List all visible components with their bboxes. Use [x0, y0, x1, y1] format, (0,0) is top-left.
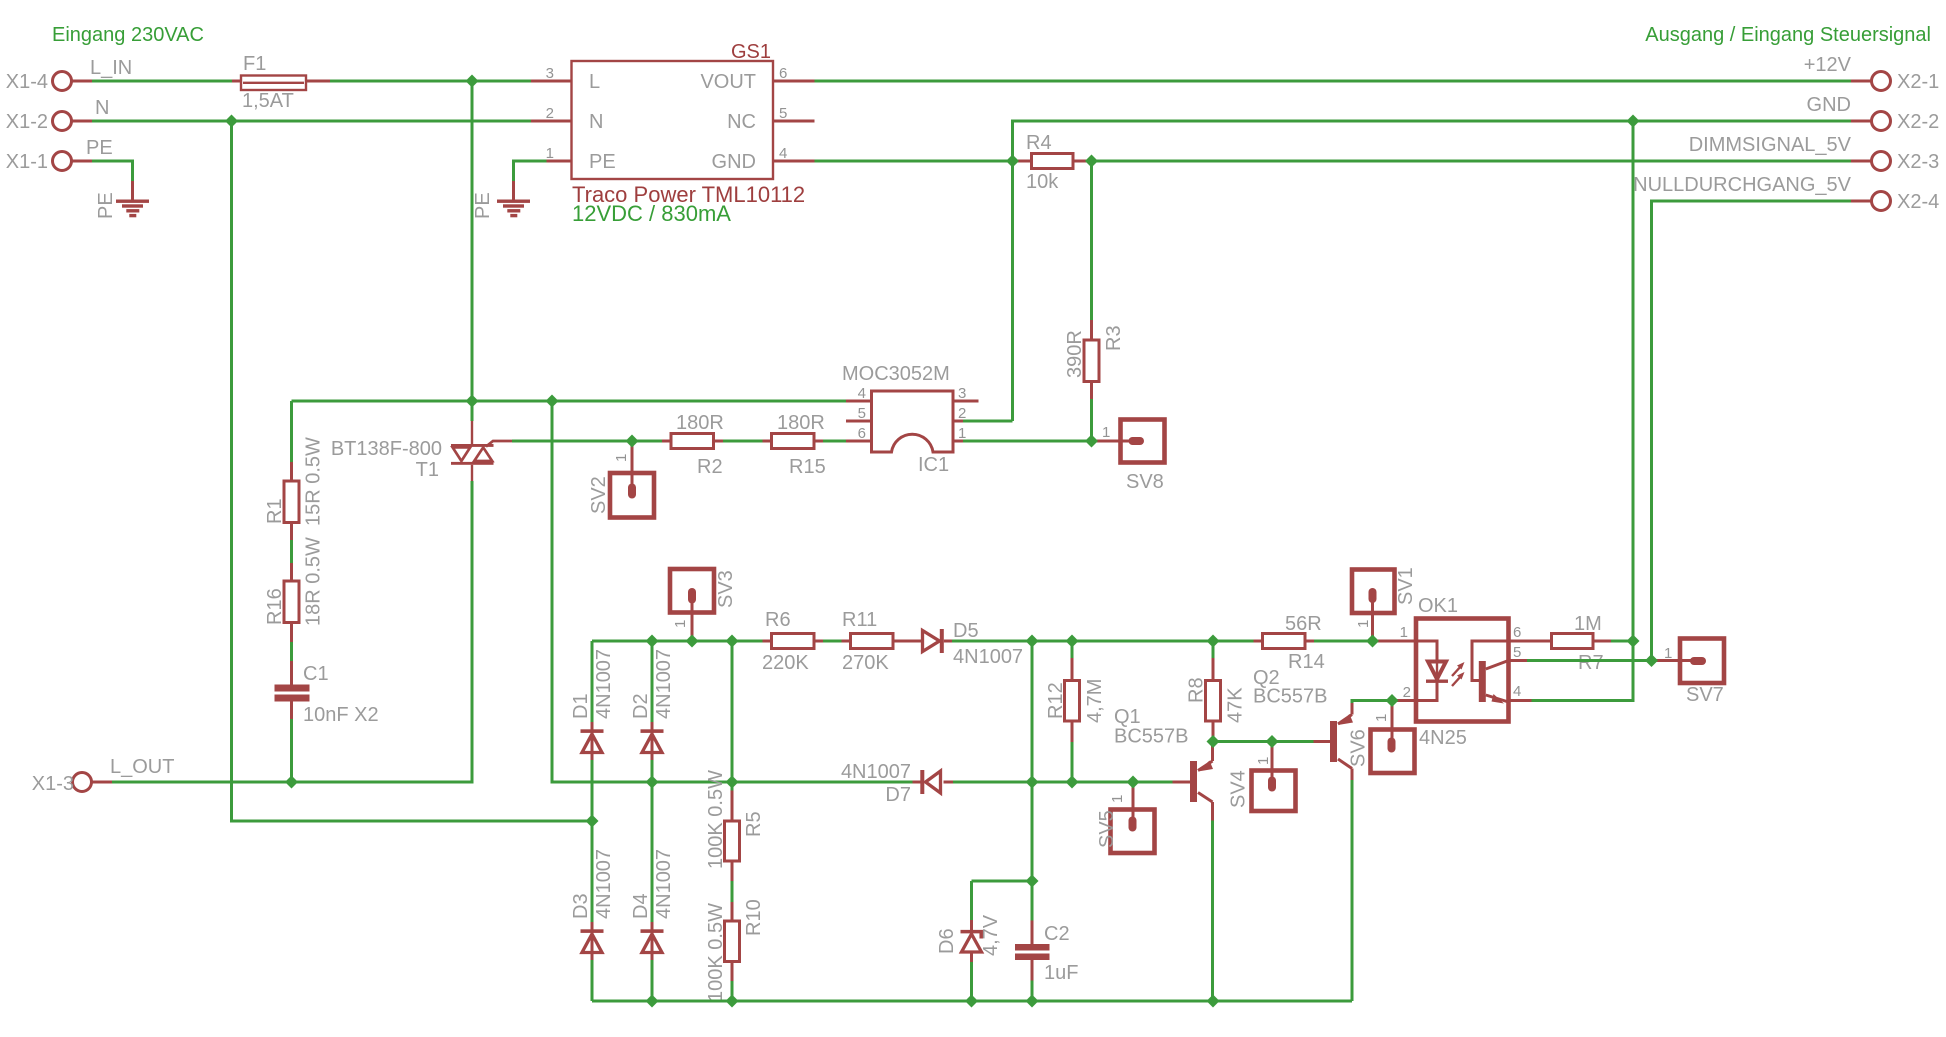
wire C1 to L_OUT	[290, 719, 293, 782]
svg-text:SV4: SV4	[1228, 770, 1250, 808]
svg-text:2: 2	[1403, 684, 1411, 701]
junction R4 right DIMMSIGNAL	[1085, 155, 1098, 168]
GS1 pin 3 L	[531, 65, 600, 93]
junction R8 top	[1207, 635, 1220, 648]
svg-text:R15: R15	[789, 456, 826, 478]
svg-text:4N1007: 4N1007	[841, 761, 911, 783]
wire GND vertical x1633	[1632, 121, 1635, 641]
fuse F1	[232, 76, 330, 91]
wire R16-C1	[290, 642, 293, 661]
svg-text:X2-1: X2-1	[1897, 71, 1939, 93]
junction R7 GND	[1627, 635, 1640, 648]
wire PE to ground	[92, 161, 133, 181]
header SV7	[1652, 639, 1725, 684]
svg-text:1uF: 1uF	[1044, 962, 1078, 984]
svg-text:1: 1	[1664, 645, 1672, 662]
header SV3	[670, 569, 714, 641]
connector pad X1-1	[6, 151, 92, 173]
GS1 pin 2 N	[531, 105, 603, 133]
svg-text:3: 3	[546, 65, 554, 82]
svg-text:56R: 56R	[1285, 613, 1322, 635]
wire base row Q2	[1213, 740, 1314, 743]
svg-text:3: 3	[958, 385, 966, 402]
svg-text:18R 0.5W: 18R 0.5W	[303, 537, 325, 626]
svg-text:N: N	[589, 111, 603, 133]
svg-text:SV8: SV8	[1126, 471, 1164, 493]
wire R15 to IC1 pin6	[823, 440, 846, 443]
connector pad X1-4	[6, 71, 92, 93]
svg-text:X2-2: X2-2	[1897, 111, 1939, 133]
resistor R6	[763, 634, 824, 649]
diode D5	[923, 629, 953, 653]
junction SV7 NULLDURCHGANG	[1645, 654, 1658, 667]
ground PE2	[497, 181, 530, 217]
svg-text:D1: D1	[570, 693, 592, 719]
resistor R5	[725, 791, 740, 882]
svg-text:R10: R10	[743, 899, 765, 936]
svg-text:4N1007: 4N1007	[953, 646, 1023, 668]
junction SV4	[1266, 735, 1279, 748]
svg-text:C2: C2	[1044, 923, 1070, 945]
junction D4 rail	[646, 995, 659, 1008]
junction D2 D4	[646, 776, 659, 789]
connector pad X2-4	[1851, 191, 1939, 213]
svg-text:180R: 180R	[676, 412, 724, 434]
capacitor C1	[275, 661, 310, 719]
svg-text:X1-4: X1-4	[6, 71, 48, 93]
capacitor C2	[1015, 881, 1050, 1001]
svg-text:270K: 270K	[842, 652, 889, 674]
junction R3 IC1 SV8	[1085, 435, 1098, 448]
OK1 pin 6	[1509, 624, 1552, 641]
wire L_OUT	[112, 481, 472, 782]
svg-text:X2-3: X2-3	[1897, 151, 1939, 173]
wire R14 to OK1 pin1	[1314, 640, 1376, 643]
ground PE1	[116, 181, 149, 217]
svg-text:R6: R6	[765, 609, 791, 631]
svg-text:D5: D5	[953, 620, 979, 642]
svg-text:R2: R2	[697, 456, 723, 478]
junction lower branch column	[546, 395, 559, 408]
wire GND row	[815, 121, 1852, 161]
junction R8 bottom Q1 emitter	[1207, 735, 1220, 748]
wire Q2 collector down	[1351, 780, 1354, 1001]
wire gate row	[512, 440, 662, 443]
svg-text:4N1007: 4N1007	[593, 849, 615, 919]
svg-text:1: 1	[1102, 424, 1110, 441]
junction C2 D6	[1026, 875, 1039, 888]
svg-text:SV2: SV2	[588, 476, 610, 514]
svg-text:1M: 1M	[1574, 613, 1602, 635]
svg-text:5: 5	[1513, 644, 1521, 661]
junction GND R4 left	[1006, 155, 1019, 168]
wire DIMMSIGNAL_5V	[1092, 160, 1852, 163]
IC1 pin 1	[953, 425, 966, 442]
wire GS1 PE to ground	[514, 161, 547, 181]
resistor R15	[763, 434, 824, 449]
OK1 pin 1	[1376, 624, 1416, 641]
svg-text:OK1: OK1	[1418, 595, 1458, 617]
svg-text:4: 4	[858, 385, 866, 402]
transistor Q2	[1314, 702, 1354, 780]
svg-text:SV3: SV3	[715, 570, 737, 608]
optotriac IC1 MOC3052M box	[872, 391, 954, 452]
wire OK1 pin4 to GND column	[1532, 641, 1634, 701]
header SV1	[1352, 570, 1395, 639]
connector pad X1-3	[32, 773, 112, 796]
resistor R1	[284, 462, 299, 540]
wire IC1 pin2 up	[963, 420, 1013, 423]
OK1 pin 5	[1509, 644, 1528, 661]
wire row y401	[292, 400, 847, 403]
svg-text:SV5: SV5	[1096, 810, 1118, 848]
svg-text:4: 4	[779, 145, 787, 162]
resistor R7	[1552, 634, 1612, 649]
junction SV2 gate	[626, 435, 639, 448]
wire branch vertical x552	[552, 401, 913, 782]
junction R12 top	[1066, 635, 1079, 648]
junction x1032 row	[1026, 776, 1039, 789]
junction D6 rail	[965, 995, 978, 1008]
wire IC1 pin1 row	[963, 440, 1109, 443]
connector pad X2-1	[1851, 71, 1939, 93]
svg-text:R4: R4	[1026, 132, 1052, 154]
svg-text:+12V: +12V	[1804, 54, 1852, 76]
zener diode D6	[961, 881, 982, 1001]
wire N branch vertical x231.5	[232, 121, 593, 821]
junction triac column	[466, 395, 479, 408]
diode D4	[641, 782, 664, 1001]
svg-text:220K: 220K	[762, 652, 809, 674]
wire column x1032	[1031, 641, 1034, 881]
svg-text:X1-3: X1-3	[32, 773, 74, 795]
svg-text:390R: 390R	[1064, 330, 1086, 378]
svg-text:R14: R14	[1288, 651, 1325, 673]
svg-text:R3: R3	[1103, 325, 1125, 351]
diode D7	[913, 770, 954, 794]
junction R5 column top	[726, 635, 739, 648]
svg-text:SV7: SV7	[1686, 684, 1724, 706]
GS1 pin 1 PE	[546, 145, 616, 173]
svg-text:1: 1	[958, 425, 966, 442]
wire R1-R16	[290, 540, 293, 563]
svg-text:N: N	[95, 97, 109, 119]
OK1 pin 4	[1509, 683, 1532, 701]
svg-text:D6: D6	[936, 928, 958, 954]
header SV8	[1092, 420, 1165, 463]
svg-text:DIMMSIGNAL_5V: DIMMSIGNAL_5V	[1689, 134, 1852, 156]
diode D3	[581, 821, 604, 1001]
svg-text:Ausgang / Eingang Steuersignal: Ausgang / Eingang Steuersignal	[1645, 24, 1931, 46]
junction SV3	[686, 635, 699, 648]
svg-text:BT138F-800: BT138F-800	[331, 438, 442, 460]
svg-text:4N1007: 4N1007	[653, 649, 675, 719]
svg-text:1: 1	[1255, 757, 1272, 765]
svg-text:1: 1	[1400, 624, 1408, 641]
header SV2	[610, 441, 654, 518]
svg-text:PE: PE	[472, 192, 494, 219]
wire Q1 collector down	[1211, 821, 1214, 1002]
junction SV5 Q1 base	[1127, 776, 1140, 789]
GS1 pin 5 NC	[727, 105, 814, 133]
resistor R3	[1084, 161, 1099, 441]
junction L_IN branch	[466, 75, 479, 88]
svg-text:4N25: 4N25	[1419, 727, 1467, 749]
wire row y782 segment is in x552 path; resistor R12	[1065, 641, 1080, 782]
svg-text:PE: PE	[589, 151, 616, 173]
svg-text:100K 0.5W: 100K 0.5W	[705, 903, 727, 1002]
junction GND column top	[1627, 115, 1640, 128]
GS1 pin 4 GND	[712, 145, 815, 173]
svg-text:Eingang 230VAC: Eingang 230VAC	[52, 24, 204, 46]
svg-text:L_OUT: L_OUT	[110, 756, 174, 778]
GS1 pin 6 VOUT	[700, 65, 814, 93]
wire C2 column head	[972, 880, 1033, 883]
svg-text:C1: C1	[303, 663, 329, 685]
svg-text:5: 5	[779, 105, 787, 122]
svg-text:BC557B: BC557B	[1253, 686, 1328, 708]
resistor R11	[842, 634, 923, 649]
svg-text:4: 4	[1513, 683, 1521, 700]
resistor R4	[1013, 154, 1092, 169]
svg-text:D2: D2	[630, 693, 652, 719]
IC1 pin 4	[846, 385, 872, 402]
diode D2	[641, 641, 664, 782]
wire Q2 emitter to OK1 pin2	[1352, 701, 1392, 704]
wire +12V	[815, 80, 1852, 83]
svg-text:4N1007: 4N1007	[593, 649, 615, 719]
svg-text:47K: 47K	[1225, 687, 1247, 723]
resistor R16	[284, 563, 299, 642]
svg-text:10nF X2: 10nF X2	[303, 704, 379, 726]
svg-text:D4: D4	[630, 893, 652, 919]
svg-text:6: 6	[1513, 624, 1521, 641]
header SV6	[1371, 701, 1415, 774]
svg-text:5: 5	[858, 405, 866, 422]
svg-text:F1: F1	[243, 53, 266, 75]
junction C2 rail	[1026, 995, 1039, 1008]
svg-text:15R 0.5W: 15R 0.5W	[303, 437, 325, 526]
svg-text:1,5AT: 1,5AT	[242, 90, 294, 112]
svg-text:PE: PE	[86, 137, 113, 159]
svg-text:L_IN: L_IN	[90, 57, 132, 79]
wire GND/IC1-pin2 vertical x1012.5	[1011, 161, 1014, 421]
resistor R14	[1254, 634, 1315, 649]
wire R10 to rail	[731, 981, 734, 1001]
svg-text:BC557B: BC557B	[1114, 726, 1189, 748]
header SV4	[1252, 742, 1296, 812]
junction R5 top row	[726, 776, 739, 789]
svg-text:4N1007: 4N1007	[653, 849, 675, 919]
wire column x732	[731, 641, 734, 791]
svg-text:VOUT: VOUT	[700, 71, 756, 93]
svg-text:GS1: GS1	[731, 41, 771, 63]
wire row y641	[592, 640, 763, 643]
wire R6-R11	[823, 640, 842, 643]
wire R2-R15	[723, 440, 763, 443]
optocoupler OK1 box	[1416, 619, 1509, 722]
header SV5	[1111, 782, 1155, 853]
svg-text:1: 1	[1355, 620, 1372, 628]
wire NULLDURCHGANG_5V	[1652, 201, 1852, 661]
wire L_IN branch vertical x472	[471, 81, 474, 401]
svg-text:T1: T1	[416, 459, 439, 481]
svg-text:X1-2: X1-2	[6, 111, 48, 133]
junction R12 bottom	[1066, 776, 1079, 789]
svg-text:D3: D3	[570, 893, 592, 919]
svg-text:GND: GND	[712, 151, 756, 173]
wire L_IN right to GS1 pin3	[330, 80, 531, 83]
svg-text:R16: R16	[264, 588, 286, 625]
triac T1	[451, 401, 512, 481]
svg-text:12VDC / 830mA: 12VDC / 830mA	[572, 201, 731, 226]
power module GS1 box	[572, 61, 774, 179]
svg-text:NC: NC	[727, 111, 756, 133]
svg-text:6: 6	[858, 425, 866, 442]
svg-text:NULLDURCHGANG_5V: NULLDURCHGANG_5V	[1633, 174, 1851, 196]
wire D5 to R14	[952, 640, 1254, 643]
svg-text:1: 1	[1109, 795, 1126, 803]
svg-text:IC1: IC1	[918, 454, 949, 476]
junction D5 column	[1026, 635, 1039, 648]
resistor R10	[725, 902, 740, 981]
wire N	[92, 120, 531, 123]
svg-text:2: 2	[958, 405, 966, 422]
connector pad X2-2	[1851, 111, 1939, 133]
junction C1 L_OUT	[285, 776, 298, 789]
svg-text:100K 0.5W: 100K 0.5W	[705, 770, 727, 869]
junction R10 rail	[726, 995, 739, 1008]
svg-text:R1: R1	[264, 498, 286, 524]
wire R1 chain top	[290, 401, 293, 462]
IC1 pin 3	[953, 385, 979, 402]
IC1 pin 5	[846, 405, 872, 422]
svg-text:1: 1	[1373, 714, 1390, 722]
svg-text:1: 1	[546, 145, 554, 162]
svg-text:D7: D7	[885, 784, 911, 806]
connector pad X2-3	[1851, 151, 1939, 173]
IC1 pin 2	[953, 405, 966, 422]
svg-text:4,7V: 4,7V	[980, 914, 1002, 956]
transistor Q1	[1173, 742, 1214, 821]
junction N branch	[225, 115, 238, 128]
OK1 pin 2	[1392, 684, 1416, 701]
svg-text:GND: GND	[1807, 94, 1851, 116]
svg-text:X1-1: X1-1	[6, 151, 48, 173]
connector pad X1-2	[6, 111, 92, 133]
wire R7 to GND column	[1611, 640, 1633, 643]
junction D1 D3 N-row	[586, 815, 599, 828]
wire bottom rail	[592, 1000, 1352, 1003]
wire D7 row right	[953, 781, 1173, 784]
svg-text:6: 6	[779, 65, 787, 82]
svg-text:SV6: SV6	[1348, 729, 1370, 767]
svg-text:4,7M: 4,7M	[1084, 679, 1106, 723]
wire L_IN left	[92, 80, 232, 83]
svg-text:2: 2	[546, 105, 554, 122]
svg-text:X2-4: X2-4	[1897, 191, 1939, 213]
svg-text:180R: 180R	[777, 412, 825, 434]
svg-text:R12: R12	[1045, 682, 1067, 719]
wire OK1 pin5 to SV7	[1527, 659, 1652, 662]
wire R5-R10	[731, 881, 734, 902]
junction D2 top	[646, 635, 659, 648]
svg-text:R5: R5	[743, 811, 765, 837]
svg-text:MOC3052M: MOC3052M	[842, 363, 950, 385]
svg-text:SV1: SV1	[1395, 567, 1417, 605]
IC1 pin 6	[846, 425, 872, 442]
junction OK1 pin2 SV6	[1386, 694, 1399, 707]
svg-text:R8: R8	[1186, 677, 1208, 703]
junction SV1 OK1 pin1	[1366, 635, 1379, 648]
OK1 light arrows	[1452, 662, 1465, 686]
resistor R8	[1206, 641, 1221, 742]
svg-text:1: 1	[613, 454, 630, 462]
OK1 phototransistor	[1472, 641, 1509, 704]
OK1 internal LED	[1416, 641, 1448, 701]
svg-text:R11: R11	[842, 609, 877, 631]
svg-text:L: L	[589, 71, 600, 93]
junction Q1 collector rail	[1207, 995, 1220, 1008]
svg-text:PE: PE	[95, 192, 117, 219]
svg-text:1: 1	[672, 620, 689, 628]
resistor R2	[662, 434, 723, 449]
diode D1	[581, 641, 604, 821]
svg-text:10k: 10k	[1026, 171, 1059, 193]
svg-text:R7: R7	[1578, 652, 1604, 674]
